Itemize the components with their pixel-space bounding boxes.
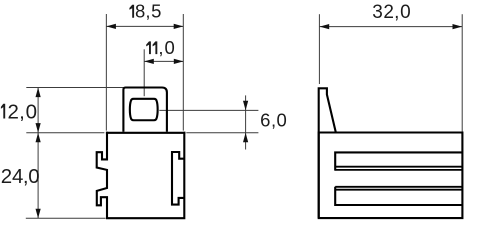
svg-text:24,0: 24,0 <box>1 165 40 188</box>
svg-text:8,5: 8,5 <box>135 1 161 22</box>
svg-text:32,0: 32,0 <box>372 2 410 23</box>
svg-text:,0: ,0 <box>158 37 174 58</box>
svg-text:2,0: 2,0 <box>7 101 37 124</box>
svg-text:6,0: 6,0 <box>260 109 287 130</box>
